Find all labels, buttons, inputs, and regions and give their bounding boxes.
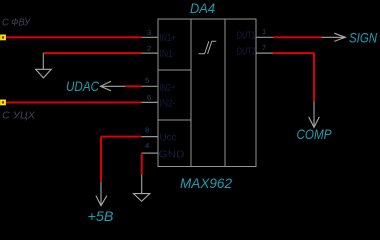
svg-text:IN1-: IN1- [160,49,176,60]
wire row2 to ground [43,52,141,54]
svg-text:SIGN: SIGN [349,30,378,46]
wire net C UCH row4 [2,101,142,103]
wire net SIGN [273,36,322,38]
svg-text:DA4: DA4 [190,0,215,16]
wire pin4 to ground [141,153,143,175]
svg-text:MAX962: MAX962 [180,175,232,191]
power port arrow +5V [96,182,107,206]
pin 8 stub Ucc [142,136,159,138]
wire net COMP vertical [313,53,315,101]
off-page arrow SIGN [322,33,346,41]
wire net UDAC [125,85,142,87]
port square C UCH [1,100,5,104]
wire net C FVU row1 [2,36,142,38]
svg-text:OUT2: OUT2 [237,47,256,58]
pin 3 stub IN1+ [142,36,159,38]
svg-text:8: 8 [145,126,149,135]
ground symbol left [36,53,52,78]
svg-text:COMP: COMP [297,126,333,142]
ground symbol bottom [134,175,150,202]
svg-text:5: 5 [145,76,149,85]
pin 4 stub GND [142,152,159,154]
svg-text:IN2-: IN2- [160,99,176,110]
svg-text:3: 3 [147,28,151,37]
hysteresis symbol [199,41,217,54]
svg-text:OUT1: OUT1 [237,31,256,42]
port square C FVU [1,35,5,39]
svg-text:GND: GND [159,150,185,161]
svg-text:2: 2 [147,44,151,53]
wire net COMP horizontal [273,52,314,54]
wire net +5V vertical [100,137,102,182]
svg-text:6: 6 [147,93,151,102]
pin 1 stub OUT1 [256,36,273,38]
svg-text:4: 4 [145,141,149,150]
wire net +5V horizontal [101,136,142,138]
svg-text:7: 7 [262,43,266,52]
svg-text:1: 1 [262,27,266,36]
off-page arrow COMP [309,101,320,127]
svg-text:IN1+: IN1+ [160,33,176,44]
svg-text:С ФВУ: С ФВУ [2,18,31,29]
pin 5 stub IN2+ [142,85,159,87]
pin 2 stub IN1- [142,52,159,54]
off-page arrow UDAC [101,81,126,91]
pin 7 stub OUT2 [256,52,273,54]
svg-text:С УЦХ: С УЦХ [2,111,35,122]
svg-text:+5В: +5В [88,208,114,224]
op-amp U1 comparator DA4 MAX962 body [158,19,256,167]
pin 6 stub IN2- [142,101,159,103]
svg-text:Ucc: Ucc [160,133,177,144]
svg-text:IN2+: IN2+ [160,83,176,94]
svg-text:UDAC: UDAC [66,78,100,94]
